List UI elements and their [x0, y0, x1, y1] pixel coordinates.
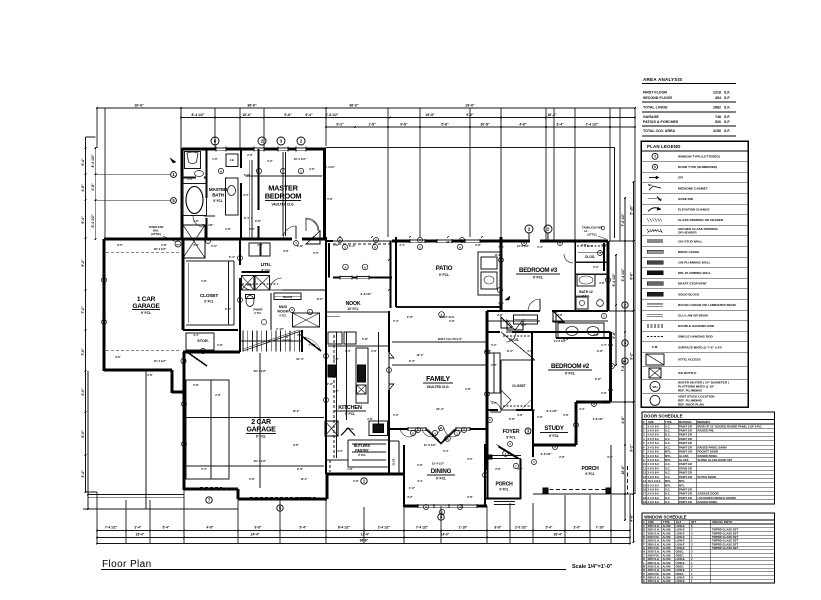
svg-text:ALUM: ALUM	[663, 557, 672, 561]
svg-text:GARAGE: GARAGE	[643, 115, 659, 119]
svg-text:GLASS OPENING OR HEADER: GLASS OPENING OR HEADER	[678, 218, 724, 222]
svg-text:TMPRD GLASS SET: TMPRD GLASS SET	[712, 542, 738, 546]
svg-text:A: A	[523, 241, 525, 245]
svg-text:SOLID BLOCK: SOLID BLOCK	[678, 292, 700, 296]
svg-text:A: A	[419, 238, 421, 242]
svg-text:2882: 2882	[713, 106, 721, 110]
svg-text:FAMILY: FAMILY	[426, 376, 450, 383]
svg-text:5'-10": 5'-10"	[629, 205, 633, 215]
svg-text:C: C	[643, 531, 645, 535]
closet strip right of kitchen	[388, 433, 390, 474]
top dimension lines	[97, 107, 635, 109]
svg-text:3050 FIX.: 3050 FIX.	[648, 546, 660, 550]
butlers shelves	[352, 443, 386, 445]
svg-text:4'-8": 4'-8"	[557, 313, 563, 317]
svg-text:96'-6": 96'-6"	[349, 104, 359, 108]
svg-text:A: A	[643, 524, 645, 528]
svg-text:H.C.: H.C.	[665, 433, 671, 437]
svg-text:5'-8": 5'-8"	[441, 123, 449, 127]
svg-text:2'-8": 2'-8"	[593, 333, 599, 337]
svg-text:REF. ROOF PLAN: REF. ROOF PLAN	[678, 402, 705, 406]
svg-text:3'-4": 3'-4"	[399, 243, 405, 247]
svg-text:MTL.: MTL.	[679, 479, 686, 483]
svg-text:DUTCH DOOR: DUTCH DOOR	[698, 475, 717, 479]
svg-text:A: A	[425, 505, 427, 509]
svg-text:ALUM: ALUM	[663, 535, 672, 539]
svg-text:GARAGE DOOR: GARAGE DOOR	[698, 492, 719, 496]
svg-text:S.F.: S.F.	[724, 106, 730, 110]
svg-text:OR HEADER: OR HEADER	[678, 231, 697, 235]
svg-text:WH: WH	[653, 385, 658, 389]
svg-text:3'-6": 3'-6"	[527, 349, 533, 353]
kitchen upper cabinets dashed	[333, 335, 335, 458]
svg-text:SECOND FLOOR: SECOND FLOOR	[643, 96, 672, 100]
door arcs	[283, 226, 296, 239]
bottom dimension lines	[97, 530, 630, 532]
pantry cased opening triangle	[341, 428, 355, 436]
kitchen-family cased opening	[389, 352, 394, 358]
svg-text:5'-0": 5'-0"	[393, 413, 399, 417]
svg-text:GARAGE: GARAGE	[247, 427, 277, 434]
svg-text:S: S	[643, 579, 645, 583]
bubble stubs bedroom3	[528, 233, 530, 241]
svg-text:2'-8": 2'-8"	[353, 479, 359, 483]
svg-text:1 CAR: 1 CAR	[137, 296, 156, 303]
svg-text:24'-4": 24'-4"	[251, 533, 260, 537]
svg-text:9'-2": 9'-2"	[81, 259, 85, 267]
svg-text:VAULTED CLG.: VAULTED CLG.	[426, 385, 449, 389]
svg-text:5'-0": 5'-0"	[593, 265, 599, 269]
svg-text:MEDICINE CABINET: MEDICINE CABINET	[678, 186, 708, 190]
svg-text:3'-0": 3'-0"	[409, 359, 416, 363]
svg-text:5'-4": 5'-4"	[349, 244, 356, 248]
svg-text:2'-0": 2'-0"	[243, 193, 249, 197]
svg-text:DOOR TYPE (NUMBERED): DOOR TYPE (NUMBERED)	[678, 165, 717, 169]
svg-text:2-8 X 8-0: 2-8 X 8-0	[648, 433, 660, 437]
garage door diagonal from mud	[303, 337, 321, 351]
svg-text:7'-4 1/2": 7'-4 1/2"	[105, 526, 118, 530]
svg-text:BATH #2: BATH #2	[579, 290, 593, 294]
svg-text:9'-2": 9'-2"	[629, 352, 633, 360]
svg-text:5'-8": 5'-8"	[327, 197, 333, 201]
svg-text:3'-8": 3'-8"	[517, 413, 523, 417]
svg-text:2 CAR: 2 CAR	[251, 419, 271, 426]
svg-text:6'-8": 6'-8"	[595, 377, 602, 381]
svg-text:2-6 X 8-0: 2-6 X 8-0	[648, 458, 660, 462]
svg-text:11: 11	[643, 466, 646, 470]
svg-text:H.C.: H.C.	[665, 471, 671, 475]
svg-text:S.F.: S.F.	[724, 120, 730, 124]
svg-text:1'-4": 1'-4"	[601, 343, 607, 347]
svg-text:3'-8": 3'-8"	[255, 219, 262, 223]
svg-text:BRICK LEDGE: BRICK LEDGE	[678, 250, 699, 254]
bedroom3 closet	[574, 241, 576, 262]
svg-text:7'-10": 7'-10"	[596, 526, 605, 530]
svg-text:9'-2": 9'-2"	[629, 444, 633, 452]
closet rods dashed	[244, 217, 252, 219]
svg-text:3'-4": 3'-4"	[81, 470, 85, 478]
svg-text:20'-8": 20'-8"	[480, 123, 490, 127]
svg-text:15'-0": 15'-0"	[446, 240, 454, 244]
misc arrows	[170, 158, 176, 163]
svg-text:WINDOW SCHEDULE: WINDOW SCHEDULE	[644, 515, 687, 520]
bedroom2 walls	[486, 311, 489, 470]
svg-text:7'-6": 7'-6"	[81, 348, 85, 356]
svg-text:GLU-LAM OR BEAM: GLU-LAM OR BEAM	[678, 314, 708, 318]
misc leader ticks on walls	[231, 148, 233, 150]
util door arc	[270, 278, 282, 290]
svg-text:REMARKS: REMARKS	[697, 420, 710, 424]
svg-text:2-8 X 8-0: 2-8 X 8-0	[648, 475, 660, 479]
svg-text:3'-8": 3'-8"	[597, 349, 604, 353]
svg-text:GFI: GFI	[678, 176, 683, 180]
svg-text:4'-8 1/2": 4'-8 1/2"	[592, 417, 604, 421]
svg-text:526: 526	[715, 120, 721, 124]
master tub	[183, 184, 207, 216]
svg-text:20'-4 1/2": 20'-4 1/2"	[254, 459, 267, 463]
svg-text:S.C.: S.C.	[665, 487, 671, 491]
svg-text:454: 454	[715, 96, 721, 100]
svg-text:8'-0 1/2": 8'-0 1/2"	[546, 409, 558, 413]
svg-text:N: N	[643, 568, 645, 572]
svg-text:SURFACE MNTD @ 7'-6" A.F.F.: SURFACE MNTD @ 7'-6" A.F.F.	[678, 345, 723, 349]
svg-text:PAINT GR: PAINT GR	[679, 496, 692, 500]
svg-text:2'-8": 2'-8"	[215, 393, 221, 397]
svg-text:7'-6 1/2": 7'-6 1/2"	[621, 213, 625, 226]
svg-text:TMPRD GLASS SET: TMPRD GLASS SET	[712, 539, 738, 543]
shower X box	[183, 225, 205, 258]
svg-text:748: 748	[715, 115, 721, 119]
svg-text:16-0 X 8-0: 16-0 X 8-0	[648, 479, 661, 483]
patio top wall with windows	[392, 240, 410, 243]
wc toilet	[185, 152, 201, 169]
svg-text:SINGLE HANGING ROD: SINGLE HANGING ROD	[678, 335, 713, 339]
svg-text:2-4 X 8-0: 2-4 X 8-0	[648, 471, 660, 475]
svg-text:REF. PLUMBING: REF. PLUMBING	[678, 388, 703, 392]
svg-text:2'-0": 2'-0"	[467, 457, 473, 461]
svg-text:16'-2": 16'-2"	[547, 113, 557, 117]
svg-text:3'-4": 3'-4"	[193, 243, 199, 247]
svg-text:BUILT CLG: BUILT CLG	[440, 315, 455, 319]
svg-text:LOW-E: LOW-E	[676, 561, 685, 565]
svg-text:2020 FIX.: 2020 FIX.	[648, 553, 660, 557]
svg-text:PWDR: PWDR	[253, 308, 263, 312]
svg-text:A: A	[339, 238, 341, 242]
svg-text:9' FCL: 9' FCL	[256, 435, 266, 439]
master suite right wall	[323, 148, 326, 238]
svg-text:8'-0": 8'-0"	[247, 283, 253, 287]
right porch slab	[543, 489, 611, 491]
svg-text:SPECIAL INSTR.: SPECIAL INSTR.	[712, 520, 733, 524]
svg-text:2020 S.H.: 2020 S.H.	[648, 539, 660, 543]
svg-text:H.C.: H.C.	[665, 492, 671, 496]
svg-text:POCKET DOOR: POCKET DOOR	[698, 450, 718, 454]
roof outline thin	[326, 147, 615, 149]
right dimension lines	[615, 255, 617, 365]
svg-text:PAINT GR: PAINT GR	[679, 475, 692, 479]
svg-text:ALUM: ALUM	[663, 568, 672, 572]
svg-text:2'-8": 2'-8"	[333, 357, 339, 361]
svg-text:MTL.: MTL.	[665, 479, 672, 483]
svg-text:2'-8": 2'-8"	[225, 307, 232, 311]
svg-text:2-4 X 8-0: 2-4 X 8-0	[648, 496, 660, 500]
svg-text:TMPRD GLASS SET: TMPRD GLASS SET	[712, 528, 738, 532]
svg-text:HOSE BIB: HOSE BIB	[678, 197, 694, 201]
svg-text:3'-4": 3'-4"	[556, 123, 564, 127]
svg-text:K: K	[643, 557, 645, 561]
svg-text:BROOM: BROOM	[283, 296, 292, 299]
svg-text:4'-8": 4'-8"	[207, 526, 214, 530]
svg-text:10'-4": 10'-4"	[296, 357, 304, 361]
svg-text:D: D	[643, 535, 645, 539]
svg-text:PAINT GR: PAINT GR	[679, 424, 692, 428]
svg-text:2'-8": 2'-8"	[187, 177, 193, 181]
svg-text:GLZ: GLZ	[676, 520, 682, 524]
svg-text:PAINT GR: PAINT GR	[679, 437, 692, 441]
grid bubbles	[211, 137, 219, 145]
svg-text:14'-0": 14'-0"	[441, 533, 450, 537]
svg-text:2-6 X 8-0: 2-6 X 8-0	[648, 492, 660, 496]
hall door leafs	[295, 226, 297, 239]
svg-text:9' FCL: 9' FCL	[358, 453, 366, 457]
svg-text:2'-8": 2'-8"	[297, 333, 303, 337]
svg-text:8'-2": 8'-2"	[333, 389, 339, 393]
svg-text:2-0 X 8-0: 2-0 X 8-0	[648, 462, 660, 466]
svg-text:3-0 X 8-0: 3-0 X 8-0	[648, 424, 660, 428]
svg-text:3'-8 1/2": 3'-8 1/2"	[540, 452, 552, 456]
svg-text:2'-8": 2'-8"	[601, 391, 607, 395]
dining walls	[404, 505, 418, 508]
svg-text:2'-0": 2'-0"	[257, 243, 263, 247]
svg-text:MC: MC	[648, 184, 652, 187]
svg-text:1'-6": 1'-6"	[212, 157, 218, 161]
svg-text:9'-4": 9'-4"	[305, 113, 313, 117]
svg-text:GLASS: GLASS	[679, 454, 689, 458]
svg-text:MTL.: MTL.	[665, 483, 672, 487]
svg-text:S.M.: S.M.	[652, 345, 658, 349]
svg-text:9'-4 1/2": 9'-4 1/2"	[612, 273, 616, 286]
porch columns	[543, 488, 548, 493]
svg-text:6'-4": 6'-4"	[81, 158, 85, 166]
svg-text:2'-8": 2'-8"	[449, 319, 455, 323]
svg-text:LOW-E: LOW-E	[676, 546, 685, 550]
svg-text:9' FCL: 9' FCL	[254, 312, 262, 315]
svg-text:H.C.: H.C.	[665, 437, 671, 441]
svg-text:11'-2": 11'-2"	[495, 253, 503, 257]
svg-text:9'-2": 9'-2"	[336, 123, 344, 127]
svg-text:6'-4 1/2": 6'-4 1/2"	[91, 214, 95, 227]
svg-text:9' FCL: 9' FCL	[213, 199, 223, 203]
svg-text:PATIO: PATIO	[436, 266, 453, 272]
svg-text:PAINT GR: PAINT GR	[679, 429, 692, 433]
svg-text:8'-8": 8'-8"	[495, 526, 502, 530]
garage1 door dashes	[106, 251, 180, 253]
broom closet	[274, 293, 301, 300]
rear wall above nook bay	[326, 240, 333, 242]
svg-text:9' FCL: 9' FCL	[439, 273, 449, 277]
powder room	[270, 293, 272, 330]
svg-text:S.C.: S.C.	[665, 475, 671, 479]
svg-text:ALUM: ALUM	[663, 564, 672, 568]
svg-text:(PAIR OF 15" DOORS) RAISED PAN: (PAIR OF 15" DOORS) RAISED PANEL 2 OF 8 …	[698, 424, 763, 428]
svg-text:2850 S.H.: 2850 S.H.	[648, 528, 660, 532]
fridge + pantry boxes kitchen top	[328, 332, 342, 344]
svg-text:2'-8": 2'-8"	[249, 477, 255, 481]
svg-text:S.F.: S.F.	[724, 91, 730, 95]
master bedroom door leaf+arc	[305, 218, 307, 231]
svg-text:9' FCL: 9' FCL	[533, 276, 543, 280]
bedroom3 walls	[501, 240, 530, 243]
svg-text:9'-4": 9'-4"	[300, 526, 307, 530]
svg-text:Scale 1/4"=1'-0": Scale 1/4"=1'-0"	[572, 564, 613, 570]
hall walls	[182, 239, 185, 330]
svg-text:5'-8": 5'-8"	[509, 417, 516, 421]
svg-text:DBL PLUMBING WALL: DBL PLUMBING WALL	[678, 271, 711, 275]
util shelves	[242, 283, 278, 285]
svg-text:A: A	[559, 241, 561, 245]
svg-text:2-6 X 8-0: 2-6 X 8-0	[648, 441, 660, 445]
svg-text:B: B	[643, 528, 645, 532]
svg-text:9' FCL: 9' FCL	[506, 436, 516, 440]
svg-text:5'-0": 5'-0"	[313, 251, 319, 255]
svg-text:9' FCL: 9' FCL	[436, 477, 446, 481]
svg-text:12'-4": 12'-4"	[300, 477, 308, 481]
svg-text:WINDOW TYPE (LETTERED): WINDOW TYPE (LETTERED)	[678, 155, 720, 159]
ceiling break master bedroom	[282, 152, 284, 236]
svg-text:9' FCL: 9' FCL	[585, 472, 595, 476]
svg-text:16'-4": 16'-4"	[436, 407, 444, 411]
svg-text:4'-8": 4'-8"	[519, 123, 527, 127]
porch steps	[494, 501, 515, 503]
extra interior partitions right wing hall	[487, 320, 540, 322]
main horizontal wall y=239	[104, 238, 292, 241]
svg-text:2'-8": 2'-8"	[417, 463, 423, 467]
svg-text:5'-2": 5'-2"	[491, 343, 497, 347]
svg-text:9'-8": 9'-8"	[607, 455, 613, 459]
bay window arcs family	[400, 428, 409, 437]
svg-text:(ATTIC): (ATTIC)	[587, 233, 596, 237]
svg-text:5'-2": 5'-2"	[267, 159, 273, 163]
svg-text:OBSC.: OBSC.	[676, 572, 685, 576]
svg-text:2'-8": 2'-8"	[407, 315, 414, 319]
svg-text:3'-0": 3'-0"	[249, 227, 255, 231]
svg-text:2'-8": 2'-8"	[293, 443, 299, 447]
svg-text:2'-8": 2'-8"	[495, 467, 501, 471]
svg-text:(ATTIC): (ATTIC)	[151, 232, 161, 236]
svg-text:CLOSET: CLOSET	[512, 384, 527, 388]
svg-text:BEDROOM #2: BEDROOM #2	[551, 363, 590, 370]
svg-text:SLDNG GLASS DOOR SET: SLDNG GLASS DOOR SET	[698, 458, 733, 462]
svg-text:3050 S.H.: 3050 S.H.	[648, 579, 660, 583]
svg-text:9'-8": 9'-8"	[115, 355, 121, 359]
svg-text:TOTAL COV. AREA: TOTAL COV. AREA	[643, 129, 675, 133]
svg-text:3'-0": 3'-0"	[574, 526, 581, 530]
svg-text:MTL.: MTL.	[665, 458, 672, 462]
master closet shelf line	[251, 160, 253, 238]
svg-text:A: A	[593, 402, 595, 406]
svg-text:16'-4": 16'-4"	[136, 533, 145, 537]
svg-text:2X4 STUD WALL: 2X4 STUD WALL	[678, 239, 703, 243]
kitchen walls	[325, 330, 327, 474]
svg-text:H.C.: H.C.	[665, 496, 671, 500]
study right wall window	[574, 412, 576, 438]
svg-text:2030 S.H.: 2030 S.H.	[648, 550, 660, 554]
svg-text:7'-10": 7'-10"	[276, 327, 284, 331]
svg-text:MASTER: MASTER	[209, 187, 228, 192]
svg-text:SIZE: SIZE	[648, 420, 654, 424]
garage door dashes	[200, 486, 222, 488]
svg-text:DOOR SCHEDULE: DOOR SCHEDULE	[644, 414, 683, 419]
svg-text:LOW-E: LOW-E	[676, 542, 685, 546]
svg-text:DRAFT STOP/VENT: DRAFT STOP/VENT	[678, 282, 707, 286]
washer dryer X boxes	[242, 276, 255, 290]
svg-text:9'-4": 9'-4"	[507, 349, 514, 353]
svg-text:ALUM: ALUM	[663, 539, 672, 543]
svg-text:MUD: MUD	[279, 305, 288, 309]
svg-text:6'-8": 6'-8"	[629, 272, 633, 280]
svg-text:16'-8": 16'-8"	[621, 465, 625, 475]
range on kitchen bottom wall	[369, 421, 388, 436]
svg-text:3'-4": 3'-4"	[417, 479, 423, 483]
svg-text:2'-8": 2'-8"	[283, 249, 289, 253]
svg-text:2'-8": 2'-8"	[161, 243, 167, 247]
svg-text:2'-8": 2'-8"	[465, 387, 471, 391]
svg-text:9' FCL: 9' FCL	[141, 311, 151, 315]
svg-text:5'-8": 5'-8"	[362, 337, 369, 341]
svg-text:2'-8": 2'-8"	[333, 243, 339, 247]
svg-text:P: P	[643, 572, 645, 576]
svg-text:11'-0 1/2": 11'-0 1/2"	[424, 443, 437, 447]
svg-text:A: A	[375, 238, 377, 242]
svg-text:2-8 X 8-0: 2-8 X 8-0	[648, 450, 660, 454]
svg-text:7'-4 1/2": 7'-4 1/2"	[586, 123, 599, 127]
svg-text:2'-8": 2'-8"	[367, 417, 373, 421]
svg-text:9'-8 1/2": 9'-8 1/2"	[360, 292, 372, 296]
svg-text:5'-4": 5'-4"	[163, 526, 170, 530]
wall tag bubbles	[218, 168, 223, 173]
vanity	[226, 178, 239, 215]
opening triangles	[306, 231, 320, 244]
stairs	[239, 330, 241, 352]
svg-text:9' FCL: 9' FCL	[499, 488, 509, 492]
svg-text:2020 FIX.: 2020 FIX.	[648, 572, 660, 576]
svg-text:TOTAL LIVING: TOTAL LIVING	[643, 106, 668, 110]
svg-text:2318: 2318	[713, 91, 721, 95]
svg-text:H.C.: H.C.	[665, 462, 671, 466]
svg-text:E: E	[643, 539, 645, 543]
dw X box kitchen corner	[325, 421, 338, 436]
svg-text:11'-8": 11'-8"	[563, 337, 571, 341]
svg-text:STUDY: STUDY	[544, 426, 564, 432]
svg-text:PAINT GR: PAINT GR	[679, 462, 692, 466]
kitchen island with sink and dw	[356, 348, 368, 403]
bath2 sink + door	[579, 300, 584, 305]
nook bay walls	[328, 243, 330, 278]
bedroom2 bottom window	[585, 400, 602, 402]
window schedule	[642, 513, 775, 583]
svg-text:4'-0": 4'-0"	[211, 244, 218, 248]
svg-text:ALUM: ALUM	[663, 553, 672, 557]
svg-text:QTY: QTY	[691, 520, 697, 524]
svg-text:AREA ANALYSIS: AREA ANALYSIS	[643, 77, 682, 82]
svg-text:3030 S.H.: 3030 S.H.	[648, 531, 660, 535]
svg-text:2850 S.H.: 2850 S.H.	[648, 542, 660, 546]
svg-text:9' FCL: 9' FCL	[204, 300, 214, 304]
svg-text:10' FCL: 10' FCL	[347, 307, 358, 311]
extension lines top	[96, 108, 98, 148]
svg-text:15'-4 1/2": 15'-4 1/2"	[432, 462, 445, 466]
svg-text:4'-2": 4'-2"	[491, 401, 497, 405]
